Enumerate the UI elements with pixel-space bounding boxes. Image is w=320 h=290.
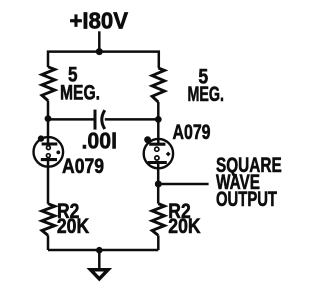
svg-text:MEG.: MEG. — [188, 83, 225, 106]
svg-text:20K: 20K — [168, 215, 200, 238]
svg-text:+I80V: +I80V — [70, 7, 129, 33]
svg-text:20K: 20K — [57, 215, 89, 238]
svg-text:OUTPUT: OUTPUT — [216, 188, 277, 211]
svg-text:.00I: .00I — [82, 127, 118, 153]
svg-text:MEG.: MEG. — [60, 81, 100, 104]
svg-text:A079: A079 — [62, 155, 104, 178]
svg-text:A079: A079 — [173, 121, 211, 144]
